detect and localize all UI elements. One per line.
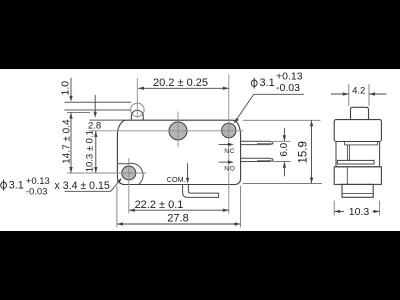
svg-text:22.2 ± 0.1: 22.2 ± 0.1 (135, 199, 184, 211)
svg-text:10.3: 10.3 (349, 206, 370, 218)
terminal NC extension line (273, 140, 291, 142)
side middle section (336, 142, 380, 167)
svg-text:27.8: 27.8 (167, 212, 188, 224)
svg-text:NO: NO (224, 165, 236, 172)
side mounting bar (337, 160, 374, 164)
terminal NO slot (257, 159, 271, 161)
terminal NC slot (257, 143, 271, 145)
dim 27.8 ext left (116, 186, 118, 227)
side cap (334, 120, 381, 142)
dim 14.7 line (70, 113, 72, 174)
horizontal centerline through H1 H2 (89, 130, 243, 132)
svg-text:1.0: 1.0 (59, 81, 71, 96)
top edge extension line (operating position line) (90, 119, 127, 121)
dim 10.3 left line (95, 131, 97, 173)
COM terminal (bottom bent prong) (183, 185, 219, 198)
dim 14.7 extension line top (67, 112, 90, 114)
dim 27.8 ext right (240, 186, 242, 227)
svg-text:NC: NC (224, 148, 235, 155)
label phi symbol bottom (1, 180, 7, 191)
dim 6.0 lower arrow (283, 162, 285, 177)
roller circle at lever end (131, 103, 145, 117)
svg-text:4.2: 4.2 (352, 86, 365, 97)
dim 4.2 right arrow (369, 93, 387, 95)
lever line (bottom) (65, 109, 131, 111)
leader top phi3.1 (236, 94, 304, 120)
terminal NO extension line (273, 161, 291, 163)
dim 10.3 side ext lines (333, 201, 335, 216)
bottom letterbox bar (0, 231, 400, 300)
dim 10.3 side line (334, 210, 344, 212)
vertical centerline H2 (long, extension for dims) (228, 75, 230, 214)
vertical centerline H1 (177, 112, 179, 148)
plunger centerline (136, 78, 138, 118)
svg-text:-0.03: -0.03 (26, 187, 48, 198)
hole H3 bottom-left (grey) (122, 166, 136, 180)
leader bottom phi3.1 underline (65, 182, 119, 192)
dim 15.9 line (311, 120, 313, 183)
side button (351, 107, 369, 119)
switch body outline (117, 120, 240, 184)
svg-text:+0.13: +0.13 (276, 71, 303, 83)
svg-text:3.1: 3.1 (260, 77, 275, 89)
dim 20.2 line (138, 87, 229, 89)
terminal NC (upper right prong) (241, 141, 273, 144)
svg-text:x 3.4 ± 0.15: x 3.4 ± 0.15 (55, 180, 110, 192)
dim 4.2 left arrow (331, 93, 349, 95)
plunger dome (131, 110, 143, 120)
side lower section (334, 167, 381, 185)
svg-text:2.8: 2.8 (88, 121, 101, 132)
vertical centerline H3 (long) (128, 158, 130, 214)
NC pointer arrow (219, 144, 230, 146)
svg-text:6.0: 6.0 (279, 142, 290, 156)
dim 27.8 line (117, 223, 241, 225)
label phi symbol top (251, 78, 257, 89)
dim 15.9 ext bottom (243, 183, 322, 185)
COM arrow (187, 163, 189, 180)
mounting boss around bottom-left hole (118, 163, 143, 184)
svg-text:14.7 ± 0.4: 14.7 ± 0.4 (61, 119, 72, 164)
dim 22.2 line (129, 209, 229, 211)
svg-text:-0.03: -0.03 (276, 82, 300, 94)
svg-text:20.2 ± 0.25: 20.2 ± 0.25 (153, 77, 208, 89)
dim 20.2 right arrowhead (223, 87, 229, 90)
side center post (346, 145, 348, 161)
terminal NO (lower right prong) (241, 158, 273, 161)
svg-text:+0.13: +0.13 (26, 176, 50, 187)
svg-text:15.9: 15.9 (298, 141, 310, 163)
svg-text:3.1: 3.1 (9, 180, 24, 192)
dim 20.2 left arrowhead (138, 87, 144, 90)
lever line (free position, top) (65, 101, 132, 103)
dim 4.2 ext lines (348, 84, 350, 106)
side lower inner line (346, 167, 348, 185)
dim 1.0 arrow (70, 78, 72, 99)
top letterbox bar (0, 0, 400, 69)
dim 6.0 upper arrow (283, 128, 285, 141)
svg-text:10.3 ± 0.1: 10.3 ± 0.1 (85, 130, 96, 172)
dim 15.9 ext top (243, 119, 321, 121)
side foot (342, 184, 373, 197)
hole H1 top-center (grey) (169, 122, 187, 140)
svg-text:COM.: COM. (167, 175, 186, 184)
NO pointer arrow (219, 161, 230, 163)
side foot inner line (342, 192, 373, 194)
hole H2 top-right (grey) (222, 123, 236, 137)
horizontal centerline H3 (67, 172, 146, 174)
side plate under cap (345, 142, 378, 145)
dim 2.8 arrow (94, 95, 96, 115)
